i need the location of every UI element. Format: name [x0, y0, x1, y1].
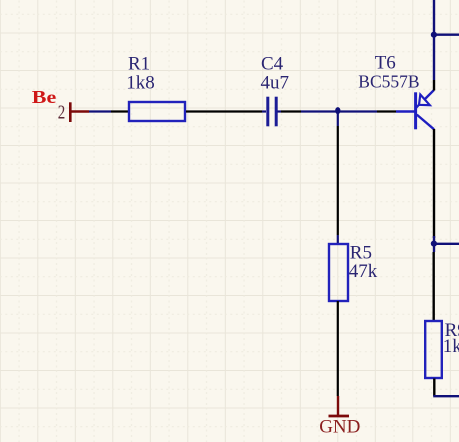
- wire near junction (navy): [433, 236, 435, 252]
- svg-text:GND: GND: [319, 416, 360, 437]
- port pin tick: [69, 102, 72, 122]
- node junction at C4/R5/base: [335, 107, 340, 114]
- wire to T6 base (black part): [377, 110, 396, 112]
- resistor R9 body: [425, 321, 442, 378]
- wire from mid junction to right edge: [434, 243, 459, 245]
- wire top rail above junction (navy): [433, 0, 435, 80]
- wire bottom right to edge (navy): [433, 395, 459, 397]
- wire R9 bottom lead (black): [433, 379, 435, 397]
- capacitor C4 left plate: [266, 97, 269, 127]
- svg-text:1k: 1k: [443, 336, 459, 357]
- wire pin to R1 (black part): [111, 110, 128, 112]
- svg-text:2: 2: [58, 100, 65, 123]
- svg-text:Be: Be: [32, 88, 57, 107]
- capacitor C4 right plate: [275, 97, 278, 127]
- wire C4 to junction (black part): [281, 110, 301, 112]
- wire R1 to C4 (black part): [186, 110, 262, 112]
- wire R5 to GND (black part): [337, 301, 339, 396]
- wire R1 to C4 (navy part): [262, 110, 266, 112]
- svg-text:BC557B: BC557B: [358, 72, 419, 92]
- svg-text:T6: T6: [375, 53, 396, 74]
- wire junction down to R5 (black part): [337, 126, 339, 235]
- wire R5 to GND (dark red part): [337, 396, 339, 415]
- wire C4 to junction (navy stub): [278, 110, 282, 112]
- node junction top right: [431, 32, 437, 38]
- port pin stub wire: [70, 110, 89, 112]
- wire into R5 top (navy stub): [337, 235, 339, 243]
- transistor T6 emitter line: [425, 90, 434, 99]
- wire junction span (navy part): [301, 110, 377, 112]
- wire from top junction to right edge: [434, 34, 459, 36]
- svg-text:4u7: 4u7: [261, 72, 290, 93]
- resistor R1 body: [129, 102, 185, 121]
- ground bar: [329, 415, 350, 418]
- wire top rail to emitter (black): [433, 80, 435, 91]
- svg-text:47k: 47k: [349, 261, 378, 282]
- svg-text:1k8: 1k8: [126, 72, 155, 93]
- resistor R5 body: [329, 244, 348, 301]
- node junction right mid: [431, 241, 437, 247]
- wire junction to R9 (black): [433, 252, 435, 320]
- transistor T6 emitter arrow apex nub: [416, 105, 419, 108]
- transistor T6 base lead: [396, 110, 415, 112]
- transistor T6 base bar: [414, 92, 417, 129]
- wire junction down to R5 (navy stub): [337, 111, 339, 126]
- transistor T6 collector line: [417, 115, 434, 130]
- wire pin to R1 (navy part): [89, 110, 111, 112]
- wire collector down to junction (black): [433, 129, 435, 238]
- transistor T6 emitter arrow (PNP, open): [419, 95, 430, 106]
